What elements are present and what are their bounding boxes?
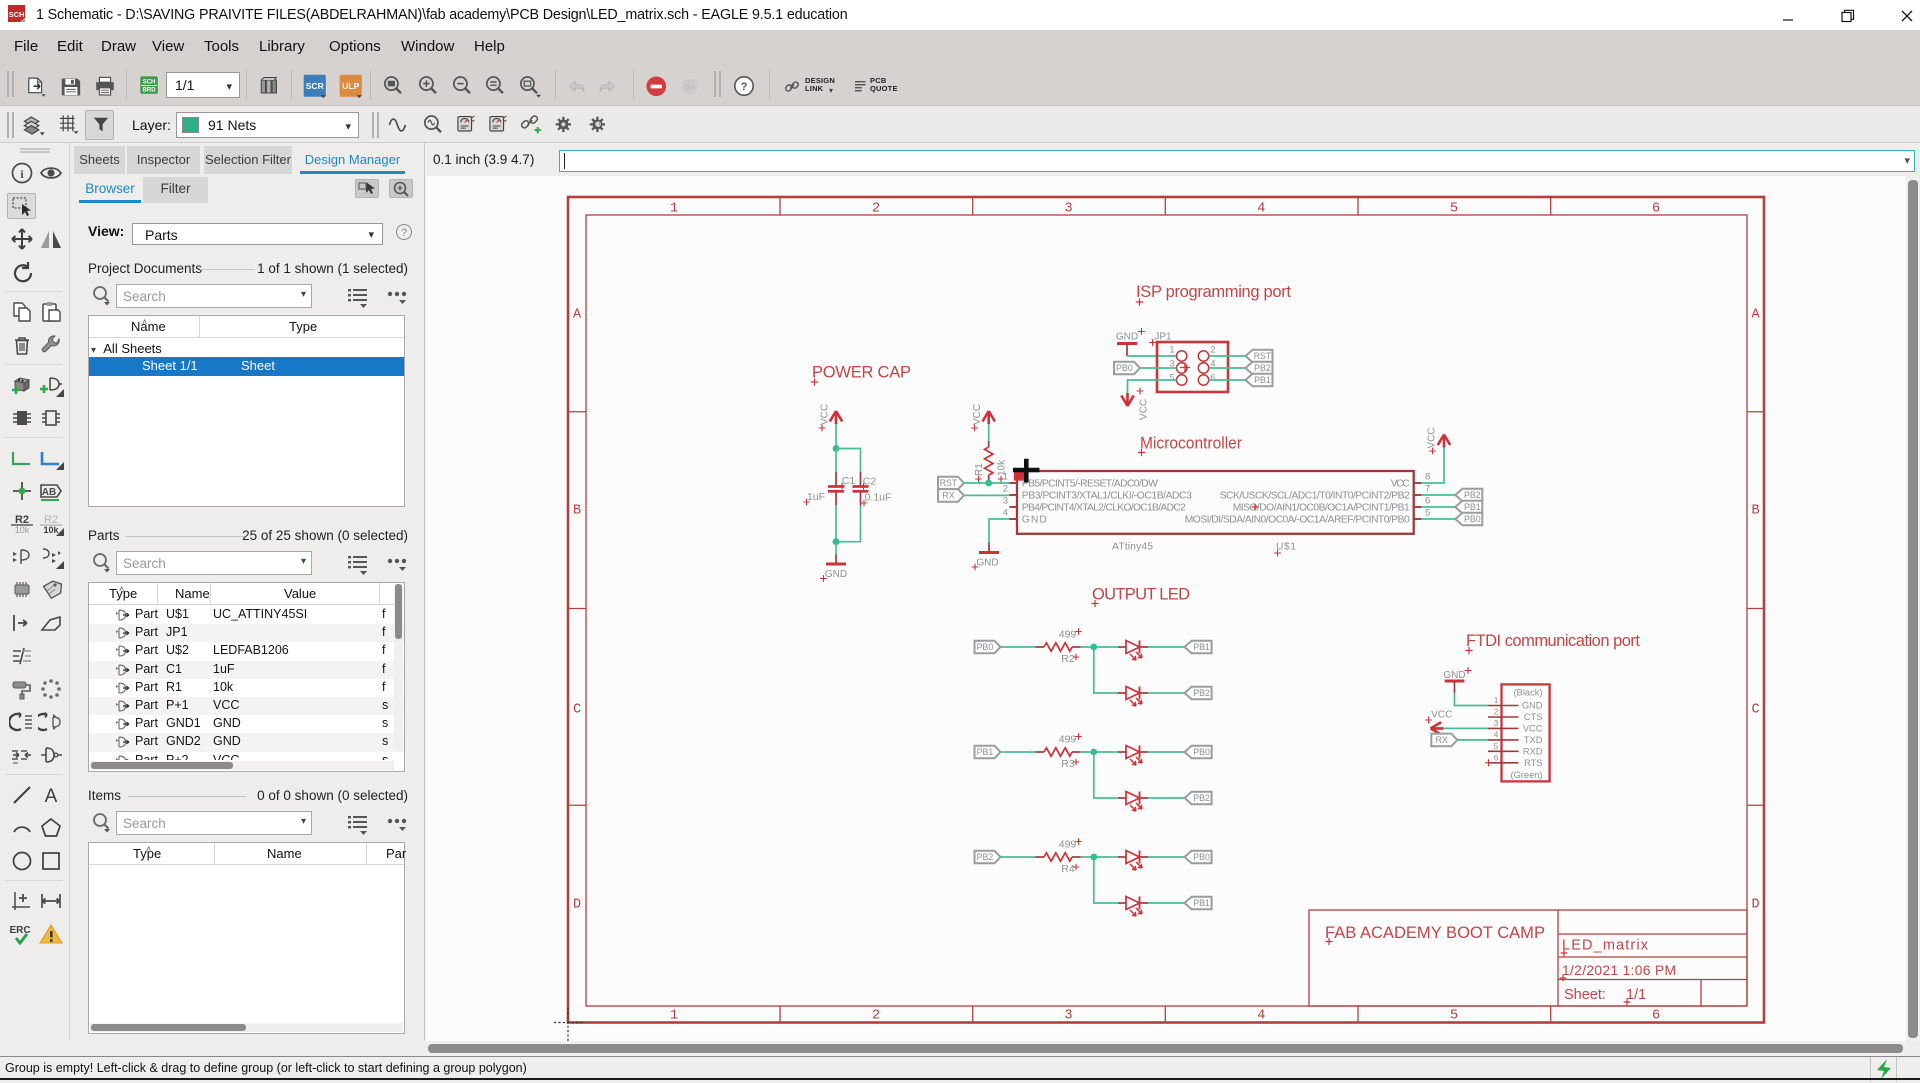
svg-text:1: 1 bbox=[670, 1009, 678, 1024]
svg-text:10k: 10k bbox=[14, 525, 29, 535]
svg-text:POWER CAP: POWER CAP bbox=[812, 364, 911, 382]
svg-text:RST: RST bbox=[1254, 351, 1272, 361]
svg-text:PB1: PB1 bbox=[977, 747, 994, 757]
svg-text:GND: GND bbox=[1443, 670, 1465, 681]
svg-text:VCC: VCC bbox=[1431, 710, 1452, 721]
svg-text:GND: GND bbox=[1522, 701, 1543, 711]
svg-text:C1: C1 bbox=[842, 475, 856, 487]
svg-text:D: D bbox=[1751, 898, 1759, 913]
svg-text:LED_matrix: LED_matrix bbox=[1562, 938, 1649, 954]
svg-text:ATtiny45: ATtiny45 bbox=[1112, 542, 1153, 553]
svg-text:PB0: PB0 bbox=[977, 642, 994, 652]
svg-text:1: 1 bbox=[1169, 345, 1174, 355]
svg-text:3: 3 bbox=[1169, 359, 1174, 369]
svg-text:5: 5 bbox=[1450, 202, 1458, 217]
svg-text:4: 4 bbox=[1003, 508, 1008, 519]
svg-text:PB0: PB0 bbox=[1464, 514, 1481, 524]
svg-text:A: A bbox=[573, 308, 582, 323]
svg-text:Sheet:: Sheet: bbox=[1564, 987, 1606, 1003]
svg-text:6: 6 bbox=[1211, 373, 1216, 383]
svg-text:2: 2 bbox=[872, 202, 880, 217]
svg-text:SCH: SCH bbox=[9, 10, 25, 19]
svg-text:PB1: PB1 bbox=[1464, 502, 1481, 512]
svg-text:GND: GND bbox=[976, 558, 998, 569]
svg-text:PB3/PCINT3/XTAL1/CLKI/-OC1B/AD: PB3/PCINT3/XTAL1/CLKI/-OC1B/ADC3 bbox=[1022, 490, 1192, 501]
svg-text:3: 3 bbox=[1003, 496, 1008, 507]
svg-text:U$1: U$1 bbox=[1276, 542, 1296, 553]
svg-text:B: B bbox=[573, 504, 581, 519]
svg-text:2: 2 bbox=[1211, 345, 1216, 355]
svg-text:GND: GND bbox=[825, 569, 847, 580]
svg-text:AB: AB bbox=[41, 487, 55, 498]
svg-text:PB4/PCINT4/XTAL2/CLKO/OC1B/ADC: PB4/PCINT4/XTAL2/CLKO/OC1B/ADC2 bbox=[1022, 502, 1186, 513]
svg-text:5: 5 bbox=[1494, 741, 1499, 751]
svg-text:MOSI/DI/SDA/AIN0/OC0A/-OC1A/AR: MOSI/DI/SDA/AIN0/OC0A/-OC1A/AREF/PCINT0/… bbox=[1185, 514, 1410, 525]
svg-text:VCC: VCC bbox=[1391, 478, 1411, 489]
svg-text:PB2: PB2 bbox=[1464, 490, 1481, 500]
svg-text:PB2: PB2 bbox=[1193, 793, 1210, 803]
svg-text:R1: R1 bbox=[974, 463, 985, 476]
svg-text:PB2: PB2 bbox=[1254, 363, 1271, 373]
svg-text:GO: GO bbox=[685, 85, 695, 92]
svg-text:PB0: PB0 bbox=[1193, 852, 1210, 862]
svg-text:ULP: ULP bbox=[342, 81, 359, 91]
svg-text:1: 1 bbox=[1003, 472, 1008, 483]
svg-text:1: 1 bbox=[670, 202, 678, 217]
svg-text:MISO/DO/AIN1/OC0B/OC1A/PCINT1/: MISO/DO/AIN1/OC0B/OC1A/PCINT1/PB1 bbox=[1233, 502, 1410, 513]
svg-text:SCR: SCR bbox=[306, 81, 324, 91]
svg-text:499: 499 bbox=[1059, 629, 1077, 641]
svg-text:A: A bbox=[44, 786, 57, 807]
svg-text:PB1: PB1 bbox=[1193, 642, 1210, 652]
svg-text:1/2/2021 1:06 PM: 1/2/2021 1:06 PM bbox=[1562, 963, 1676, 978]
svg-text:C: C bbox=[573, 703, 581, 718]
svg-text:PB2: PB2 bbox=[1193, 688, 1210, 698]
svg-text:5: 5 bbox=[1425, 508, 1430, 519]
svg-text:FAB ACADEMY BOOT CAMP: FAB ACADEMY BOOT CAMP bbox=[1325, 923, 1545, 942]
svg-text:0.1uF: 0.1uF bbox=[865, 492, 892, 504]
svg-text:499: 499 bbox=[1059, 839, 1077, 851]
svg-text:5: 5 bbox=[1450, 1009, 1458, 1024]
svg-text:4: 4 bbox=[1211, 359, 1216, 369]
svg-text:4: 4 bbox=[1494, 729, 1499, 739]
svg-text:3: 3 bbox=[1065, 1009, 1073, 1024]
svg-text:7: 7 bbox=[1425, 484, 1430, 495]
svg-text:3: 3 bbox=[1494, 718, 1499, 728]
svg-text:GND: GND bbox=[1116, 332, 1138, 343]
svg-text:SCH: SCH bbox=[143, 80, 156, 86]
svg-text:2: 2 bbox=[872, 1009, 880, 1024]
svg-text:3: 3 bbox=[1065, 202, 1073, 217]
svg-text:RST: RST bbox=[940, 478, 958, 488]
svg-text:(Black): (Black) bbox=[1514, 688, 1543, 698]
svg-text:C: C bbox=[1751, 703, 1759, 718]
svg-text:ISP programming port: ISP programming port bbox=[1136, 283, 1291, 301]
svg-text:PB2: PB2 bbox=[977, 852, 994, 862]
svg-text:VCC: VCC bbox=[1427, 427, 1438, 448]
svg-text:6: 6 bbox=[1652, 202, 1660, 217]
svg-text:6: 6 bbox=[1494, 752, 1499, 762]
svg-text:D: D bbox=[573, 898, 581, 913]
svg-text:6: 6 bbox=[1425, 496, 1430, 507]
svg-text:R3: R3 bbox=[1061, 758, 1075, 770]
svg-text:2: 2 bbox=[1003, 484, 1008, 495]
svg-text:PB1: PB1 bbox=[1193, 898, 1210, 908]
svg-text:PB0: PB0 bbox=[1116, 363, 1133, 373]
svg-text:TXD: TXD bbox=[1524, 735, 1543, 745]
svg-text:OUTPUT LED: OUTPUT LED bbox=[1092, 586, 1190, 604]
svg-text:SCK/USCK/SCL/ADC1/T0/INT0/PCIN: SCK/USCK/SCL/ADC1/T0/INT0/PCINT2/PB2 bbox=[1220, 490, 1410, 501]
svg-text:4: 4 bbox=[1257, 1009, 1265, 1024]
svg-text:8: 8 bbox=[1425, 472, 1430, 483]
svg-text:A: A bbox=[1751, 308, 1760, 323]
svg-text:VCC: VCC bbox=[972, 404, 983, 425]
svg-text:GND: GND bbox=[1022, 514, 1047, 525]
svg-text:1uF: 1uF bbox=[807, 491, 825, 503]
svg-text:RX: RX bbox=[1436, 735, 1448, 745]
svg-text:(Green): (Green) bbox=[1510, 770, 1542, 780]
svg-text:499: 499 bbox=[1059, 734, 1077, 746]
svg-text:R2: R2 bbox=[1061, 653, 1075, 665]
svg-text:Microcontroller: Microcontroller bbox=[1140, 435, 1242, 453]
svg-text:FTDI communication port: FTDI communication port bbox=[1466, 632, 1640, 650]
svg-text:PB0: PB0 bbox=[1193, 747, 1210, 757]
svg-text:VCC: VCC bbox=[1139, 399, 1150, 420]
svg-text:i: i bbox=[20, 167, 24, 181]
svg-text:6: 6 bbox=[1652, 1009, 1660, 1024]
svg-text:1: 1 bbox=[1494, 695, 1499, 705]
svg-text:RX: RX bbox=[942, 491, 954, 501]
svg-text:RTS: RTS bbox=[1524, 758, 1542, 768]
svg-text:?: ? bbox=[741, 81, 748, 93]
svg-text:BRD: BRD bbox=[143, 88, 157, 94]
svg-text:2: 2 bbox=[1494, 707, 1499, 717]
svg-text:C2: C2 bbox=[863, 476, 877, 488]
svg-text:B: B bbox=[1751, 504, 1759, 519]
svg-text:1/1: 1/1 bbox=[1626, 987, 1646, 1003]
svg-text:PB1: PB1 bbox=[1254, 375, 1271, 385]
svg-text:CTS: CTS bbox=[1524, 712, 1543, 722]
svg-text:PB5/PCINT5/-RESET/ADC0/DW: PB5/PCINT5/-RESET/ADC0/DW bbox=[1022, 478, 1158, 489]
svg-text:5: 5 bbox=[1169, 373, 1174, 383]
svg-text:4: 4 bbox=[1257, 202, 1265, 217]
svg-text:R4: R4 bbox=[1061, 863, 1075, 875]
svg-text:RXD: RXD bbox=[1523, 746, 1543, 756]
svg-text:VCC: VCC bbox=[1523, 723, 1543, 733]
svg-text:VCC: VCC bbox=[820, 404, 831, 425]
